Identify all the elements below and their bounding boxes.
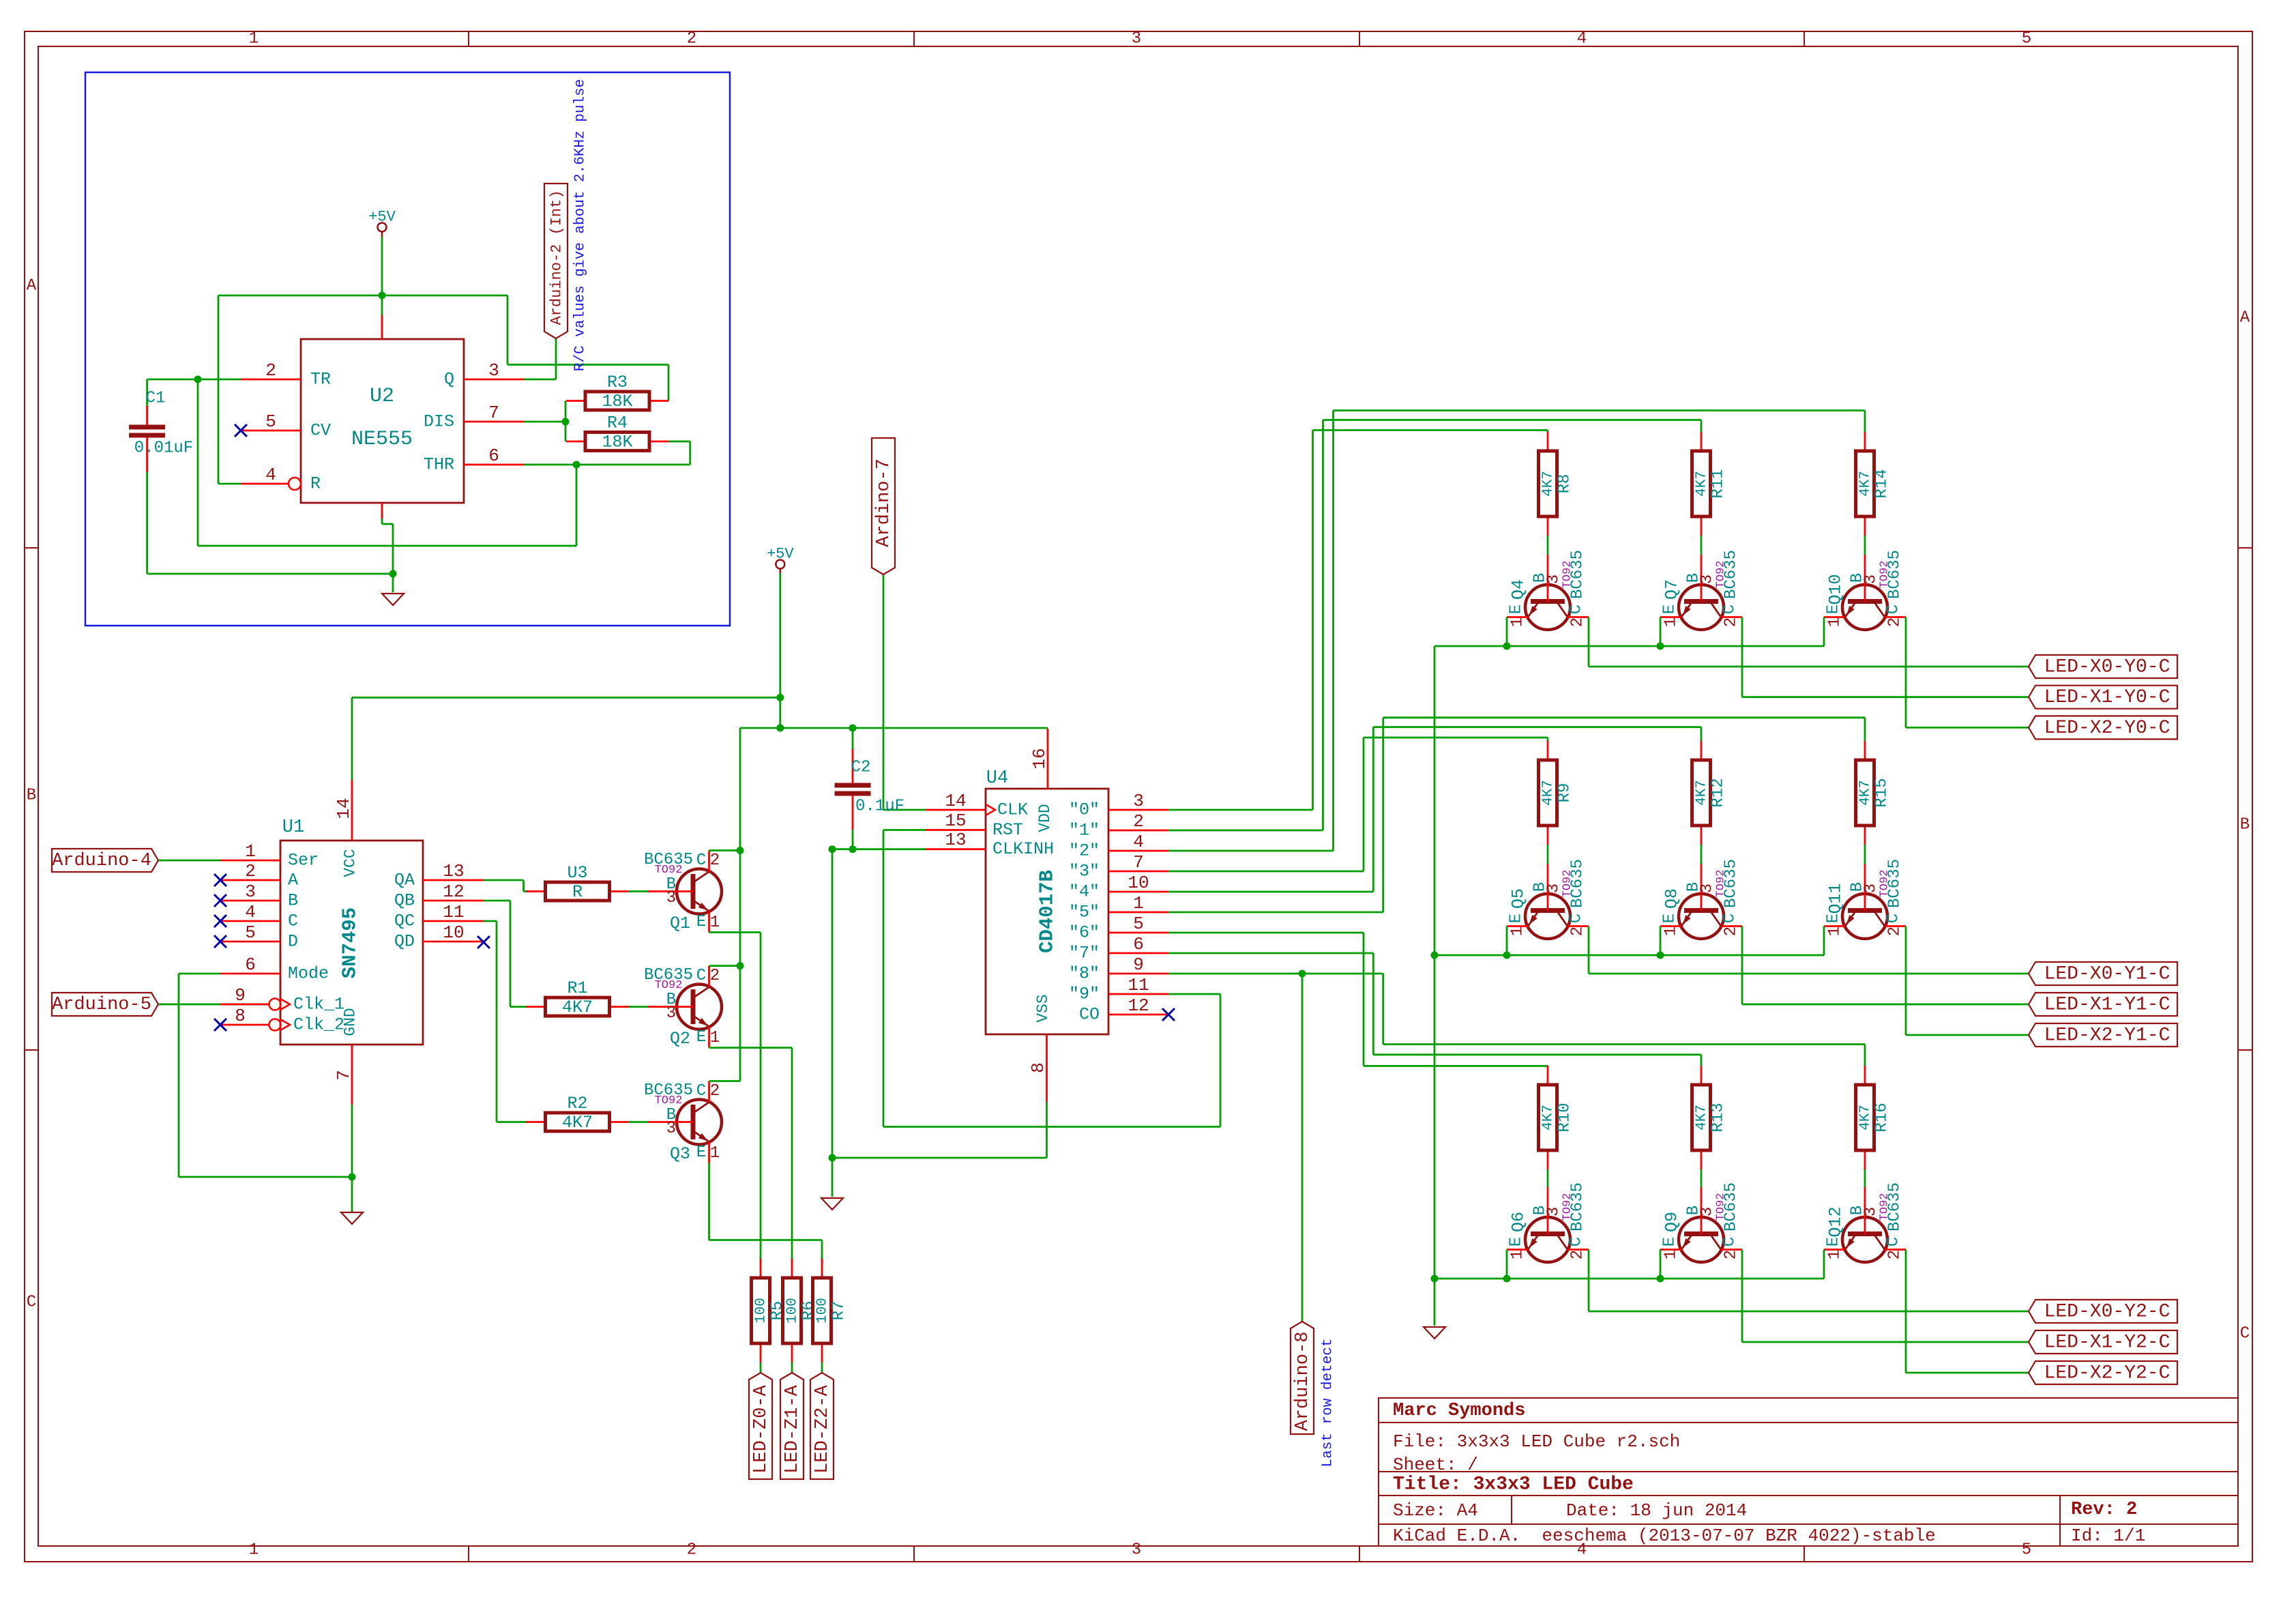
svg-text:Arduino-2 (Int): Arduino-2 (Int) — [548, 190, 565, 325]
svg-text:Size: A4: Size: A4 — [1393, 1500, 1478, 1521]
svg-text:18K: 18K — [602, 433, 632, 452]
svg-text:4K7: 4K7 — [1541, 471, 1557, 497]
svg-text:BC635: BC635 — [1722, 859, 1741, 908]
svg-text:Q7: Q7 — [1662, 579, 1682, 600]
svg-text:E: E — [1661, 1237, 1679, 1246]
svg-text:2: 2 — [710, 1082, 720, 1100]
svg-text:CV: CV — [310, 421, 331, 441]
svg-text:R9: R9 — [1556, 783, 1574, 803]
svg-text:R4: R4 — [607, 413, 628, 433]
svg-text:1: 1 — [1662, 927, 1681, 936]
svg-text:B: B — [2240, 816, 2250, 834]
svg-text:LED-X0-Y1-C: LED-X0-Y1-C — [2044, 964, 2170, 985]
svg-text:C1: C1 — [146, 390, 166, 408]
svg-text:NE555: NE555 — [351, 428, 413, 451]
svg-text:7: 7 — [334, 1070, 354, 1081]
svg-text:D: D — [288, 932, 298, 952]
svg-text:100: 100 — [815, 1298, 831, 1324]
svg-text:13: 13 — [443, 861, 464, 881]
svg-text:LED-Z2-A: LED-Z2-A — [812, 1384, 833, 1473]
svg-text:QC: QC — [394, 912, 415, 931]
svg-text:C: C — [1568, 604, 1586, 614]
svg-text:1: 1 — [1133, 893, 1144, 914]
svg-text:2: 2 — [1886, 927, 1904, 936]
svg-text:C: C — [1568, 1237, 1586, 1246]
svg-text:C: C — [1721, 1237, 1739, 1246]
svg-text:C: C — [1568, 914, 1586, 923]
svg-text:R: R — [572, 882, 583, 902]
svg-text:LED-X1-Y0-C: LED-X1-Y0-C — [2044, 687, 2170, 708]
svg-text:3: 3 — [488, 360, 499, 381]
svg-text:Rev: 2: Rev: 2 — [2071, 1500, 2137, 1520]
svg-text:R16: R16 — [1873, 1103, 1892, 1132]
svg-text:18K: 18K — [602, 392, 632, 411]
svg-text:QD: QD — [394, 932, 415, 952]
svg-text:E: E — [1507, 604, 1526, 614]
svg-text:LED-X2-Y2-C: LED-X2-Y2-C — [2044, 1363, 2170, 1384]
svg-text:3: 3 — [1862, 884, 1881, 893]
svg-text:DIS: DIS — [424, 412, 454, 432]
svg-text:"8": "8" — [1069, 964, 1100, 984]
svg-text:11: 11 — [1128, 975, 1149, 995]
svg-text:Mode: Mode — [288, 964, 329, 984]
svg-text:BC635: BC635 — [1722, 550, 1741, 599]
svg-text:5: 5 — [245, 922, 256, 943]
svg-text:15: 15 — [945, 811, 966, 831]
svg-text:R13: R13 — [1709, 1103, 1728, 1132]
svg-text:R1: R1 — [567, 978, 587, 998]
svg-text:R7: R7 — [830, 1301, 849, 1321]
svg-text:A: A — [27, 277, 37, 295]
svg-text:C: C — [2240, 1325, 2250, 1343]
svg-text:+5V: +5V — [368, 209, 396, 226]
svg-text:2: 2 — [1886, 617, 1904, 627]
svg-text:100: 100 — [785, 1298, 801, 1324]
svg-text:0.1uF: 0.1uF — [855, 798, 904, 816]
svg-text:SN7495: SN7495 — [339, 907, 362, 978]
svg-text:LED-X1-Y2-C: LED-X1-Y2-C — [2044, 1332, 2170, 1354]
svg-text:Q12: Q12 — [1826, 1206, 1846, 1237]
svg-text:Clk_2: Clk_2 — [293, 1015, 344, 1035]
svg-text:R3: R3 — [607, 373, 628, 392]
svg-text:4: 4 — [1133, 832, 1144, 852]
svg-text:"5": "5" — [1069, 903, 1100, 922]
svg-text:3: 3 — [1132, 30, 1141, 48]
svg-text:1: 1 — [1509, 617, 1527, 627]
svg-text:3: 3 — [1545, 574, 1563, 584]
svg-text:C: C — [1721, 914, 1739, 923]
svg-text:3: 3 — [1698, 1207, 1717, 1216]
svg-text:A: A — [2240, 309, 2250, 327]
svg-text:1: 1 — [1826, 1250, 1844, 1259]
svg-text:4K7: 4K7 — [1858, 1105, 1874, 1131]
svg-text:E: E — [696, 1143, 706, 1162]
svg-text:2: 2 — [710, 967, 720, 985]
svg-text:Arduino-8: Arduino-8 — [1293, 1332, 1313, 1431]
svg-text:Q10: Q10 — [1826, 574, 1846, 604]
svg-text:CLK: CLK — [997, 800, 1028, 820]
svg-text:11: 11 — [443, 902, 464, 922]
svg-text:QA: QA — [394, 871, 415, 890]
svg-text:Q1: Q1 — [670, 914, 690, 933]
svg-text:2: 2 — [710, 851, 720, 870]
svg-text:LED-X1-Y1-C: LED-X1-Y1-C — [2044, 995, 2170, 1016]
svg-text:QB: QB — [394, 891, 415, 911]
svg-text:Q9: Q9 — [1662, 1212, 1682, 1232]
svg-text:12: 12 — [443, 881, 464, 902]
svg-text:"6": "6" — [1069, 923, 1100, 943]
svg-text:8: 8 — [235, 1006, 246, 1026]
svg-text:BC635: BC635 — [1569, 1182, 1587, 1231]
svg-text:10: 10 — [1128, 873, 1149, 893]
svg-text:E: E — [1825, 1237, 1843, 1246]
svg-text:R10: R10 — [1556, 1103, 1574, 1132]
svg-text:LED-X2-Y1-C: LED-X2-Y1-C — [2044, 1025, 2170, 1047]
svg-text:5: 5 — [265, 411, 276, 432]
svg-text:14: 14 — [334, 798, 354, 819]
svg-text:3: 3 — [1132, 1541, 1141, 1560]
svg-text:R15: R15 — [1873, 778, 1892, 807]
svg-text:R: R — [310, 474, 321, 494]
svg-text:GND: GND — [342, 1008, 359, 1036]
svg-text:4: 4 — [1577, 30, 1587, 48]
svg-text:CD4017B: CD4017B — [1036, 870, 1059, 953]
svg-text:2: 2 — [687, 30, 696, 48]
svg-text:Ardino-7: Ardino-7 — [874, 458, 894, 547]
svg-text:2: 2 — [687, 1541, 696, 1560]
svg-text:Clk_1: Clk_1 — [293, 995, 344, 1015]
svg-text:+5V: +5V — [767, 546, 794, 563]
svg-text:VCC: VCC — [342, 849, 359, 877]
svg-text:R2: R2 — [567, 1094, 587, 1113]
svg-text:C: C — [1721, 604, 1739, 614]
svg-text:5: 5 — [2022, 30, 2031, 48]
svg-text:"1": "1" — [1069, 821, 1100, 841]
svg-text:"3": "3" — [1069, 862, 1100, 881]
svg-text:THR: THR — [424, 455, 454, 475]
svg-text:Id: 1/1: Id: 1/1 — [2071, 1526, 2145, 1546]
svg-text:2: 2 — [1722, 617, 1741, 627]
svg-text:7: 7 — [1133, 852, 1144, 873]
svg-text:Date: 18 jun 2014: Date: 18 jun 2014 — [1566, 1500, 1747, 1521]
svg-text:"7": "7" — [1069, 944, 1100, 963]
svg-text:4K7: 4K7 — [1541, 780, 1557, 806]
svg-text:E: E — [1661, 604, 1679, 614]
svg-text:E: E — [1825, 604, 1843, 614]
svg-text:Q4: Q4 — [1509, 579, 1529, 600]
svg-text:R12: R12 — [1709, 778, 1728, 807]
svg-text:LED-Z1-A: LED-Z1-A — [782, 1384, 803, 1473]
svg-text:1: 1 — [1826, 617, 1844, 627]
svg-text:7: 7 — [488, 403, 499, 423]
svg-text:12: 12 — [1128, 995, 1149, 1016]
svg-text:U1: U1 — [282, 817, 304, 838]
svg-text:1: 1 — [1826, 927, 1844, 936]
svg-text:2: 2 — [1569, 617, 1587, 627]
svg-text:3: 3 — [1545, 1207, 1563, 1216]
svg-text:1: 1 — [710, 1029, 720, 1047]
svg-text:RST: RST — [992, 820, 1023, 840]
svg-text:1: 1 — [249, 1541, 259, 1560]
svg-text:Marc Symonds: Marc Symonds — [1393, 1401, 1525, 1421]
svg-text:VSS: VSS — [1034, 994, 1052, 1022]
svg-text:Title: 3x3x3 LED Cube: Title: 3x3x3 LED Cube — [1393, 1474, 1634, 1496]
svg-text:Sheet: /: Sheet: / — [1393, 1455, 1478, 1475]
svg-text:BC635: BC635 — [1886, 550, 1904, 599]
svg-text:14: 14 — [945, 791, 966, 811]
svg-text:C: C — [1885, 604, 1903, 614]
svg-text:4: 4 — [245, 902, 256, 922]
svg-text:Arduino-5: Arduino-5 — [52, 995, 151, 1015]
svg-text:1: 1 — [1509, 927, 1527, 936]
svg-text:3: 3 — [1133, 791, 1144, 811]
svg-text:"4": "4" — [1069, 882, 1100, 902]
svg-text:BC635: BC635 — [1886, 1182, 1904, 1231]
svg-text:2: 2 — [245, 861, 256, 881]
svg-text:B: B — [27, 787, 36, 805]
svg-text:1: 1 — [1662, 617, 1681, 627]
svg-text:BC635: BC635 — [1569, 859, 1587, 908]
svg-text:E: E — [696, 1028, 706, 1047]
svg-text:4K7: 4K7 — [562, 1113, 593, 1133]
svg-text:C: C — [696, 1082, 706, 1100]
svg-text:C: C — [696, 967, 706, 985]
svg-text:3: 3 — [666, 1004, 676, 1023]
svg-text:4K7: 4K7 — [1694, 1105, 1710, 1131]
svg-text:C: C — [1885, 914, 1903, 923]
svg-text:LED-X2-Y0-C: LED-X2-Y0-C — [2044, 718, 2170, 739]
svg-text:CLKINH: CLKINH — [992, 839, 1054, 859]
svg-text:E: E — [1507, 1237, 1526, 1246]
svg-text:C: C — [288, 912, 298, 931]
svg-text:Q8: Q8 — [1662, 888, 1682, 909]
svg-text:4K7: 4K7 — [1541, 1105, 1557, 1131]
svg-text:R11: R11 — [1709, 469, 1728, 498]
svg-text:LED-Z0-A: LED-Z0-A — [751, 1384, 771, 1473]
svg-text:2: 2 — [1722, 927, 1741, 936]
svg-text:"9": "9" — [1069, 985, 1100, 1004]
svg-text:Q2: Q2 — [670, 1029, 690, 1049]
svg-text:4K7: 4K7 — [1858, 471, 1874, 497]
svg-text:TR: TR — [310, 370, 331, 390]
svg-text:100: 100 — [754, 1298, 769, 1324]
svg-text:4K7: 4K7 — [562, 997, 593, 1017]
svg-text:6: 6 — [488, 446, 499, 466]
svg-text:2: 2 — [265, 360, 276, 381]
svg-text:3: 3 — [666, 889, 676, 907]
svg-text:A: A — [288, 871, 298, 890]
svg-text:10: 10 — [443, 922, 464, 943]
svg-text:U4: U4 — [986, 768, 1008, 789]
svg-text:1: 1 — [1509, 1250, 1527, 1259]
svg-text:Last row detect: Last row detect — [1321, 1338, 1336, 1467]
svg-text:3: 3 — [1698, 884, 1717, 893]
svg-text:1: 1 — [710, 914, 720, 932]
svg-text:3: 3 — [1862, 1207, 1881, 1216]
svg-text:Q: Q — [444, 370, 454, 390]
svg-text:LED-X0-Y2-C: LED-X0-Y2-C — [2044, 1302, 2170, 1323]
svg-text:5: 5 — [2022, 1541, 2031, 1560]
svg-text:3: 3 — [1862, 574, 1881, 584]
svg-text:2: 2 — [1133, 811, 1144, 832]
svg-text:2: 2 — [1569, 1250, 1587, 1259]
svg-text:CO: CO — [1079, 1005, 1100, 1025]
svg-text:"0": "0" — [1069, 800, 1100, 820]
svg-text:U3: U3 — [567, 863, 587, 883]
svg-text:E: E — [1507, 914, 1526, 923]
svg-text:5: 5 — [1133, 914, 1144, 934]
svg-text:BC635: BC635 — [1886, 859, 1904, 908]
svg-text:4: 4 — [265, 465, 276, 485]
svg-text:LED-X0-Y0-C: LED-X0-Y0-C — [2044, 657, 2170, 678]
svg-text:0.01uF: 0.01uF — [134, 439, 193, 458]
svg-text:16: 16 — [1029, 748, 1050, 769]
svg-text:1: 1 — [1662, 1250, 1681, 1259]
svg-text:U2: U2 — [370, 385, 394, 408]
svg-text:4K7: 4K7 — [1694, 471, 1710, 497]
svg-text:"2": "2" — [1069, 841, 1100, 861]
svg-text:4K7: 4K7 — [1694, 780, 1710, 806]
svg-text:6: 6 — [1133, 934, 1144, 954]
svg-text:4K7: 4K7 — [1858, 780, 1874, 806]
svg-text:R/C values give about 2.6KHz p: R/C values give about 2.6KHz pulse — [573, 79, 589, 371]
svg-text:3: 3 — [666, 1120, 676, 1138]
svg-text:1: 1 — [245, 841, 256, 862]
svg-text:Q3: Q3 — [670, 1144, 690, 1164]
svg-text:C2: C2 — [851, 759, 871, 777]
svg-text:8: 8 — [1028, 1062, 1048, 1073]
svg-text:Ser: Ser — [288, 851, 319, 871]
svg-text:1: 1 — [710, 1144, 720, 1163]
svg-text:R14: R14 — [1873, 469, 1892, 498]
svg-text:3: 3 — [1698, 574, 1717, 584]
svg-text:9: 9 — [235, 985, 246, 1006]
svg-text:2: 2 — [1886, 1250, 1904, 1259]
svg-text:6: 6 — [245, 954, 256, 975]
svg-text:E: E — [1825, 914, 1843, 923]
svg-text:2: 2 — [1569, 927, 1587, 936]
svg-text:Q11: Q11 — [1826, 883, 1846, 914]
svg-text:C: C — [696, 851, 706, 870]
svg-text:BC635: BC635 — [1722, 1182, 1741, 1231]
svg-text:R8: R8 — [1556, 474, 1574, 494]
svg-text:BC635: BC635 — [1569, 550, 1587, 599]
svg-text:9: 9 — [1133, 954, 1144, 975]
svg-text:C: C — [27, 1294, 36, 1312]
svg-text:KiCad E.D.A. eeschema (2013-0: KiCad E.D.A. eeschema (2013-07-07 BZR 40… — [1393, 1526, 1936, 1546]
svg-text:1: 1 — [249, 30, 259, 48]
svg-text:File: 3x3x3 LED Cube r2.sch: File: 3x3x3 LED Cube r2.sch — [1393, 1431, 1680, 1452]
svg-text:C: C — [1885, 1237, 1903, 1246]
svg-text:VDD: VDD — [1036, 804, 1054, 832]
svg-text:Q6: Q6 — [1509, 1212, 1529, 1232]
svg-text:B: B — [288, 891, 298, 911]
svg-text:Arduino-4: Arduino-4 — [52, 851, 151, 871]
svg-text:Q5: Q5 — [1509, 888, 1529, 909]
svg-text:E: E — [696, 913, 706, 931]
svg-text:2: 2 — [1722, 1250, 1741, 1259]
svg-text:E: E — [1661, 914, 1679, 923]
svg-text:3: 3 — [1545, 884, 1563, 893]
svg-text:13: 13 — [945, 830, 966, 850]
svg-text:3: 3 — [245, 881, 256, 902]
